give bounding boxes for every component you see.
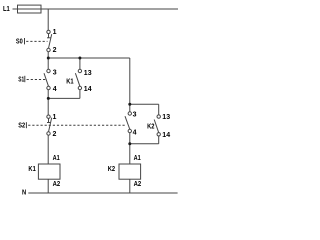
svg-text:13: 13 [84,70,92,77]
svg-text:A2: A2 [134,181,142,188]
svg-text:14: 14 [84,86,92,93]
svg-text:14: 14 [162,132,170,139]
svg-text:2: 2 [53,47,57,54]
svg-text:K1: K1 [28,166,35,173]
svg-text:S0: S0 [16,39,23,46]
svg-text:1: 1 [53,29,57,36]
svg-text:N: N [22,190,26,197]
svg-text:A1: A1 [134,155,141,162]
svg-text:4: 4 [133,129,137,136]
svg-text:13: 13 [162,114,170,121]
svg-text:1: 1 [53,114,57,121]
svg-text:A1: A1 [53,155,60,162]
svg-text:4: 4 [53,86,57,93]
svg-text:K2: K2 [108,166,115,173]
svg-text:S2: S2 [18,122,25,129]
svg-text:K1: K1 [66,78,73,85]
svg-text:3: 3 [53,70,57,77]
svg-text:A2: A2 [53,181,61,188]
svg-text:L1: L1 [3,4,10,13]
svg-text:K2: K2 [147,123,154,130]
svg-text:2: 2 [53,131,57,138]
svg-text:3: 3 [133,111,137,118]
svg-text:S1: S1 [18,76,24,83]
